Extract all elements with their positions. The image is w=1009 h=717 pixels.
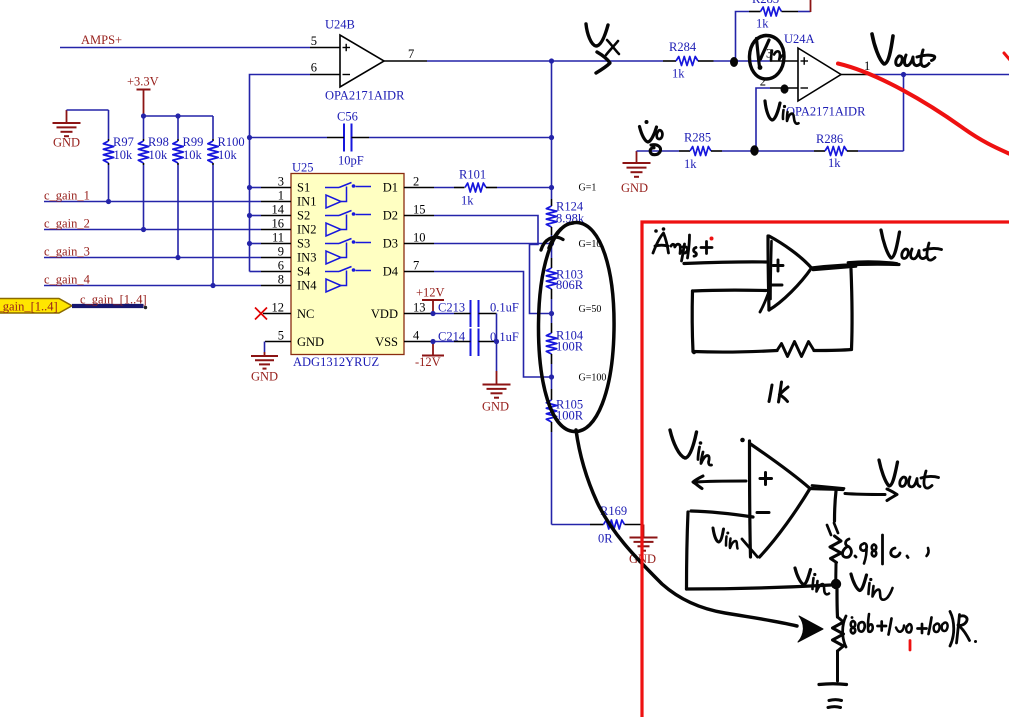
annotation sketch2 left arrow [693,476,746,489]
svg-text:S3: S3 [297,237,310,251]
annotation sketch2 divider top [827,491,838,535]
power +12V [416,286,445,314]
svg-text:VSS: VSS [375,335,398,349]
resistor R101 1k [434,168,552,208]
annotation ink dot pin2 [781,84,789,93]
svg-text:R100: R100 [218,135,245,149]
annotation red dot in Amps+ [710,237,714,241]
svg-text:G=50: G=50 [579,304,602,315]
annotation divider bottom resistor [833,589,844,681]
junction VSS [430,339,435,344]
pin 7 (D4) of U25 [404,259,434,273]
power +3.3V [127,75,159,117]
svg-text:10pF: 10pF [338,154,364,168]
wire net c_gain_2 [44,217,261,231]
svg-text:16: 16 [272,217,285,231]
wire to S4 [250,271,262,273]
svg-text:GND: GND [621,181,648,195]
annotation ink dot R283 node [730,57,738,67]
pin 10 (D3) of U25 [404,231,434,245]
wire to S2 [250,215,262,217]
wire net c_gain_1 [44,189,261,203]
pin 7 of U24B [384,47,427,61]
annotation Vx [586,24,619,55]
wire U24B output to node Vx [427,60,663,62]
annotation red box [642,222,1009,717]
svg-text:c_gain_[1..4]: c_gain_[1..4] [0,300,58,314]
svg-text:U25: U25 [292,161,314,175]
svg-text:-12V: -12V [415,355,441,369]
svg-text:OPA2171AIDR: OPA2171AIDR [786,105,866,119]
wire R283 to top edge [810,0,812,12]
svg-text:R286: R286 [816,132,843,146]
pin 14 (S2) of U25 [261,203,310,223]
wire to S1 [250,187,262,189]
svg-text:VDD: VDD [371,307,398,321]
svg-text:GND: GND [297,335,324,349]
pin 6 (S4) of U25 [261,259,311,279]
bus end dot [144,306,147,309]
svg-text:D3: D3 [383,237,398,251]
annotation 8.98k text [842,535,928,564]
pin 9 (IN3) of U25 [261,245,316,265]
pin 2 (D1) of U25 [404,175,434,189]
power -12V [415,342,444,370]
annotation Vin below U24A [765,101,799,124]
svg-text:10k: 10k [149,148,169,162]
junction R99 to c_gain_3 [175,255,180,260]
svg-text:c_gain_3: c_gain_3 [44,245,90,259]
ground GND top-left [53,110,81,150]
svg-text:IN1: IN1 [297,195,316,209]
ground GND U25 [251,352,278,384]
svg-text:100R: 100R [556,340,584,354]
wire decoupling to GND [496,314,498,372]
svg-text:5: 5 [311,34,317,48]
svg-text:806R: 806R [556,278,584,292]
annotation sketch2 node dot [831,579,841,589]
svg-text:7: 7 [413,259,419,273]
junction node S2 [247,213,252,218]
pin 6 wire from node [250,75,311,272]
annotation sketch1 Vout [881,230,942,260]
pin 5 of U24B [310,34,340,48]
annotation arrow on Vx wire [596,52,610,73]
annotation sketch2 output arrow [810,486,897,501]
annotation sketch2 resistor 8.98k [830,536,841,579]
svg-text:1k: 1k [828,156,841,170]
wire chain bottom to R169 [552,524,591,526]
svg-text:NC: NC [297,307,314,321]
svg-text:2: 2 [413,175,419,189]
resistor R104 100R [546,314,584,378]
wire D3 to G=10 tap [434,243,552,245]
switch glyph channel 2 of U25 [325,211,371,237]
svg-text:AMPS+: AMPS+ [81,33,122,47]
junction C56 right [549,135,554,140]
resistor R98 10k [138,116,169,230]
annotation big arrowhead [798,616,823,642]
svg-text:IN3: IN3 [297,251,316,265]
svg-text:OPA2171AIDR: OPA2171AIDR [325,89,405,103]
capacitor C56 [327,110,369,168]
annotation sketch2 Vin in loop [713,528,738,549]
junction feedback [901,72,906,77]
annotation red tick in formula [909,641,912,651]
annotation circle around U24A input [749,36,784,80]
svg-text:G=100: G=100 [579,373,607,384]
annotation sketch2 op-amp [740,438,810,557]
pin 8 (IN4) of U25 [261,273,317,293]
pin 3 of U24A [766,47,798,62]
svg-text:R98: R98 [148,135,169,149]
svg-text:G=1: G=1 [579,183,597,194]
junction G=50 tap [549,311,554,316]
junction VDD [430,311,435,316]
switch glyph channel 1 of U25 [325,183,371,209]
annotation sketch1 feedback loop [692,269,852,357]
resistor R124 8.98k [546,199,585,244]
junction G=10 tap [549,241,554,246]
resistor R285 1k [679,131,756,172]
svg-text:U24A: U24A [784,32,815,46]
resistor R100 10k [208,116,245,286]
junction +3.3V R99 [175,113,180,118]
svg-text:100R: 100R [556,409,584,423]
annotation hook arrow Vo [650,145,660,155]
wire +3.3V rail [144,115,214,117]
wire R283 branch [736,12,750,62]
bus c_gain_[1..4] [72,293,147,307]
svg-text:3: 3 [278,175,284,189]
wire net c_gain_4 [44,273,261,287]
svg-text:+12V: +12V [416,286,445,300]
wire C56 left [250,137,328,139]
svg-text:9: 9 [278,245,284,259]
svg-text:S2: S2 [297,209,310,223]
annotation ellipse hook [541,237,563,250]
capacitor C214 0.1uF [433,329,519,357]
pin 11 (S3) of U25 [261,231,310,251]
pin name D4 of U25 [383,265,399,279]
annotation ink dot inverting node [750,145,758,155]
IC U25 ADG1312YRUZ body [291,161,404,370]
annotation Vin big sketch2 [670,430,712,465]
wire D2 to G=50 tap [434,216,552,314]
junction G=100 tap [549,374,554,379]
label G=1 [579,183,597,194]
annotation ground sketch2 [819,684,847,708]
annotation red tick top right [1004,53,1009,60]
pin 1 (IN1) of U25 [261,189,316,209]
annotation sketch1 plus minus [771,260,783,285]
resistor R99 10k [173,116,204,258]
capacitor C213 0.1uF [433,300,519,327]
svg-text:c_gain_4: c_gain_4 [44,273,91,287]
svg-text:12: 12 [272,301,285,315]
pin 3 (S1) of U25 [261,175,310,195]
annotation sketch1 output [812,262,900,270]
svg-text:U24B: U24B [325,18,355,32]
svg-text:1k: 1k [461,194,474,208]
wire to S3 [250,243,262,245]
svg-text:D1: D1 [383,181,398,195]
svg-text:C213: C213 [438,301,465,315]
svg-text:6: 6 [278,259,284,273]
pin name D1 of U25 [383,181,398,195]
pin name D3 of U25 [383,237,398,251]
svg-text:GND: GND [482,400,509,414]
annotation Vo with dot [640,120,663,142]
svg-text:S1: S1 [297,181,310,195]
svg-text:6: 6 [311,61,317,75]
annotation red curve [838,64,1009,155]
svg-text:0R: 0R [598,532,613,546]
pin 1 of U24A [841,59,872,75]
svg-text:C214: C214 [438,330,466,344]
wire inverting input [756,88,770,151]
wire D4 to G=100 tap [434,272,552,378]
switch glyph channel 3 of U25 [325,239,371,265]
junction R283 node [733,58,738,63]
svg-text:IN4: IN4 [297,279,317,293]
switch glyph channel 4 of U25 [325,267,371,293]
annotation sketch2 loop [687,511,832,589]
pin name D2 of U25 [383,209,398,223]
svg-text:10k: 10k [114,148,134,162]
svg-text:11: 11 [272,231,284,245]
wire feedback [903,75,905,152]
svg-text:C56: C56 [337,110,358,124]
resistor R286 1k [814,132,904,170]
junction C214 right [494,339,499,344]
annotation sketch1 input wire [684,262,766,264]
junction R98 to c_gain_2 [141,227,146,232]
annotation curve to resistor formula [576,430,797,626]
wire net Vo [637,150,680,152]
junction output node [549,58,554,63]
junction G=1 tap [549,185,554,190]
svg-text:D2: D2 [383,209,398,223]
no-connect X on pin 12 [255,308,267,320]
svg-text:R97: R97 [113,135,134,149]
svg-text:1k: 1k [756,17,769,31]
wire GND to R97 [67,109,109,111]
svg-text:13: 13 [413,301,426,315]
annotation Amps+ handwritten [653,227,712,261]
junction C56 left [247,135,252,140]
resistor R103 806R [546,244,583,314]
junction +3.3V R98 [141,113,146,118]
svg-text:D4: D4 [383,265,399,279]
label G=10 [579,239,602,250]
svg-text:10: 10 [413,231,426,245]
ground GND decoupling [482,371,511,414]
pin 15 (D2) of U25 [404,203,434,217]
wire net c_gain_3 [44,245,261,259]
resistor R105 100R [546,377,583,525]
pin 6 of U24B [310,61,340,75]
resistor R284 1k [663,40,770,81]
svg-text:R285: R285 [684,131,711,145]
label G=50 [579,304,602,315]
annotation sketch2 Vin right of node [851,574,893,600]
op-amp U24B [325,18,405,103]
port c_gain_[1..4] [0,299,72,314]
pin 5 (GND) of U25 [265,329,324,350]
wire C56 right [369,137,552,139]
resistor R283 1k [749,0,811,31]
wire U24A output [872,74,1009,76]
annotation Vout top right [872,34,935,66]
junction node S3 [247,241,252,246]
op-amp U24A [784,32,866,119]
junction inverting node [753,148,758,153]
annotation Vin inside circle [757,39,785,70]
svg-text:IN2: IN2 [297,223,316,237]
svg-text:R101: R101 [459,168,486,182]
annotation ellipse around gain resistors [538,222,614,431]
svg-text:R283: R283 [752,0,779,6]
svg-text:14: 14 [272,203,285,217]
svg-text:15: 15 [413,203,426,217]
svg-text:GND: GND [53,136,80,150]
wire inverting node to R286 [756,150,814,152]
pin 12 (NC) of U25 [263,301,314,322]
pin 16 (IN2) of U25 [261,217,316,237]
svg-text:10k: 10k [218,148,238,162]
svg-text:10k: 10k [183,148,203,162]
junction node S1 [247,185,252,190]
resistor R169 0R [590,504,641,546]
svg-text:S4: S4 [297,265,311,279]
svg-text:+3.3V: +3.3V [127,75,159,89]
svg-text:1: 1 [278,189,284,203]
svg-text:GND: GND [251,370,278,384]
annotation (806+100+100)R formula [843,612,977,648]
svg-text:0.1uF: 0.1uF [490,301,519,315]
pin 13 (VDD) of U25 [371,301,433,322]
resistor R97 10k [103,110,134,202]
junction R100 to c_gain_4 [210,283,215,288]
svg-text:4: 4 [413,329,420,343]
svg-text:1k: 1k [672,67,685,81]
svg-text:7: 7 [408,47,414,61]
svg-text:R284: R284 [669,40,697,54]
wire U25 GND down [264,342,266,353]
pin 2 of U24A [760,75,798,89]
ground GND R169 [629,525,658,567]
svg-text:R99: R99 [183,135,204,149]
annotation sketch1 1k [769,382,788,402]
annotation sketch2 Vout [879,460,939,488]
svg-text:5: 5 [278,329,284,343]
junction R97 to c_gain_1 [106,199,111,204]
svg-text:1k: 1k [684,157,697,171]
label G=100 [579,373,607,384]
wire node Vx vertical [551,61,553,199]
svg-text:c_gain_1: c_gain_1 [44,189,90,203]
svg-text:ADG1312YRUZ: ADG1312YRUZ [293,355,379,369]
annotation sketch2 plus minus [757,473,772,513]
svg-text:c_gain_2: c_gain_2 [44,217,90,231]
ground GND Vo [621,151,651,195]
annotation sketch1 op-amp [760,236,812,312]
svg-text:8: 8 [278,273,284,287]
wire net AMPS+ [60,33,310,48]
annotation sketch2 Vin left of node [795,568,829,594]
svg-text:c_gain_[1..4]: c_gain_[1..4] [80,293,147,307]
pin 4 (VSS) of U25 [375,329,433,350]
